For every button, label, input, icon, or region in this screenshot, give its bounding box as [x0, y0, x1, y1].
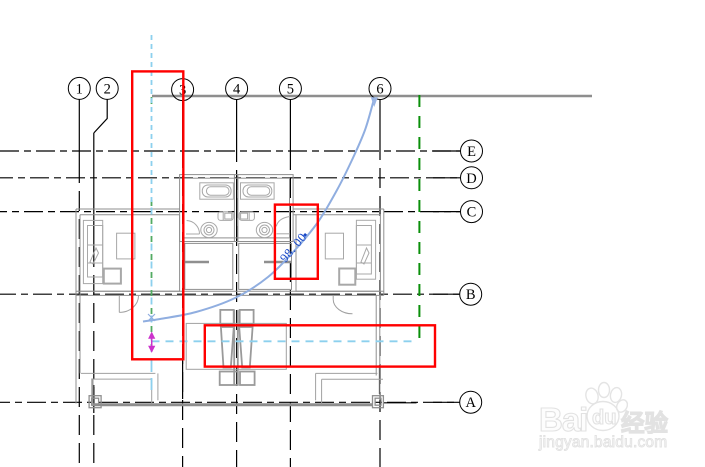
bathroom right door: [276, 217, 289, 227]
landing square bottom-right: [240, 372, 255, 386]
stool left room: [104, 269, 121, 284]
grid 3 solid segment below red rect: [182, 361, 184, 399]
lower-left room door: [119, 296, 138, 313]
watermark paw: [587, 402, 619, 431]
grid line E: [0, 150, 460, 152]
stair flight right: [239, 327, 252, 368]
sofa left room: [83, 220, 102, 283]
landing square bottom-left: [220, 372, 238, 386]
stair flight left: [221, 327, 234, 368]
blue arc: [143, 99, 374, 322]
grid line C: [0, 211, 460, 213]
right room bottom line: [316, 372, 378, 374]
right outer wall upper: [383, 209, 385, 295]
svg-text:6: 6: [376, 82, 383, 98]
bubble leader D: [433, 177, 460, 179]
sofa right room: [356, 220, 375, 279]
grid line B: [0, 293, 459, 295]
svg-text:E: E: [467, 144, 476, 160]
bubble E: [461, 140, 483, 162]
sink unit left: [218, 212, 233, 221]
bathtub right: [241, 183, 275, 199]
top wall right segment: [293, 208, 384, 210]
bubble leader E: [433, 150, 460, 152]
bubble leader C: [433, 211, 460, 213]
B wall: [76, 290, 384, 292]
grid 6 solid segment bottom: [379, 365, 381, 394]
lower-right room door: [333, 299, 352, 314]
middle-left room outline: [185, 243, 233, 289]
svg-text:经验: 经验: [621, 409, 669, 436]
bubble C: [461, 201, 483, 223]
bathroom left door: [187, 221, 200, 234]
svg-text:1: 1: [76, 81, 83, 97]
left outer wall: [75, 209, 77, 404]
bubble 1: [68, 77, 90, 99]
bubble 6: [369, 78, 391, 100]
grid 2 solid segment bottom: [93, 385, 95, 413]
grid line A: [0, 401, 459, 403]
landing square top-right: [240, 310, 254, 324]
stairwell outline: [186, 323, 286, 369]
bubble leader A: [433, 401, 460, 403]
right porch: [322, 378, 383, 380]
cyan dashed vertical line top: [151, 35, 153, 202]
stair center rail: [233, 310, 235, 386]
green dashes under cyan line: [151, 200, 153, 348]
right step vertical: [315, 373, 317, 400]
grid line 4: [236, 99, 238, 152]
svg-text:C: C: [467, 205, 477, 221]
svg-text:D: D: [466, 171, 476, 187]
left porch: [93, 378, 152, 380]
bubble 3: [172, 79, 194, 101]
svg-text:A: A: [465, 395, 476, 411]
grid line 5: [289, 99, 291, 152]
bathroom middle wall: [233, 175, 235, 242]
red rect wide: [205, 325, 435, 366]
bubble 2: [96, 77, 118, 99]
green dashed vertical line right: [418, 95, 420, 340]
green dash top: [151, 97, 153, 104]
bubble 5: [279, 78, 301, 100]
angle text 98.00: [277, 230, 309, 265]
table right room: [325, 233, 343, 259]
half wall left: [184, 261, 209, 264]
svg-text:jingyan.baidu.com: jingyan.baidu.com: [538, 434, 667, 451]
grid 4 solid segment in bathroom: [236, 176, 238, 240]
bubble leader B: [433, 293, 460, 295]
svg-text:du: du: [592, 407, 616, 429]
grid line D: [0, 177, 460, 179]
right outer wall lower: [379, 295, 381, 400]
bubble 4: [226, 78, 248, 100]
middle-right room outline: [239, 243, 292, 289]
upper-left room inner border: [80, 215, 180, 291]
top wall left segment: [76, 208, 180, 210]
svg-text:5: 5: [287, 82, 294, 98]
bathroom inner wall: [183, 178, 289, 238]
cyan dashed horizontal line: [152, 340, 418, 342]
grid line 2: [93, 133, 95, 255]
angle degree dot: [303, 233, 307, 237]
red rect small: [275, 205, 318, 279]
blue end cross: [148, 314, 155, 321]
grid line 3: [182, 101, 184, 152]
blue arc top arrowhead: [371, 97, 378, 107]
red rect tall: [132, 71, 183, 359]
stool right room: [339, 269, 355, 285]
grid line 2 jog: [94, 99, 107, 133]
half wall right: [264, 261, 291, 264]
cyan dashed vertical line bottom: [151, 350, 153, 390]
bottom heavy gray line: [92, 403, 373, 406]
toilet right: [256, 222, 272, 237]
svg-text:2: 2: [104, 81, 111, 97]
svg-text:4: 4: [233, 82, 241, 98]
grid line 1: [78, 99, 80, 163]
top heavy gray line: [152, 95, 592, 98]
bubble D: [461, 167, 483, 189]
grid line 6: [379, 99, 381, 152]
table left room: [117, 233, 135, 259]
left room bottom line: [81, 372, 155, 374]
svg-text:Bai: Bai: [539, 401, 587, 438]
toilet left: [201, 222, 217, 237]
cyan dashed vertical line mid: [151, 200, 153, 348]
left step vertical: [157, 373, 159, 400]
svg-text:B: B: [466, 287, 476, 303]
column right: [373, 396, 384, 408]
bathtub left: [200, 183, 234, 199]
column left: [89, 396, 101, 408]
bubble B: [460, 283, 482, 305]
sink unit right: [239, 212, 254, 221]
grid 5 solid segment in plan: [289, 209, 291, 239]
landing square top-left: [220, 310, 233, 324]
upper-right room inner border: [296, 215, 380, 291]
bubble A: [460, 391, 482, 413]
bathroom outer wall: [180, 175, 294, 242]
